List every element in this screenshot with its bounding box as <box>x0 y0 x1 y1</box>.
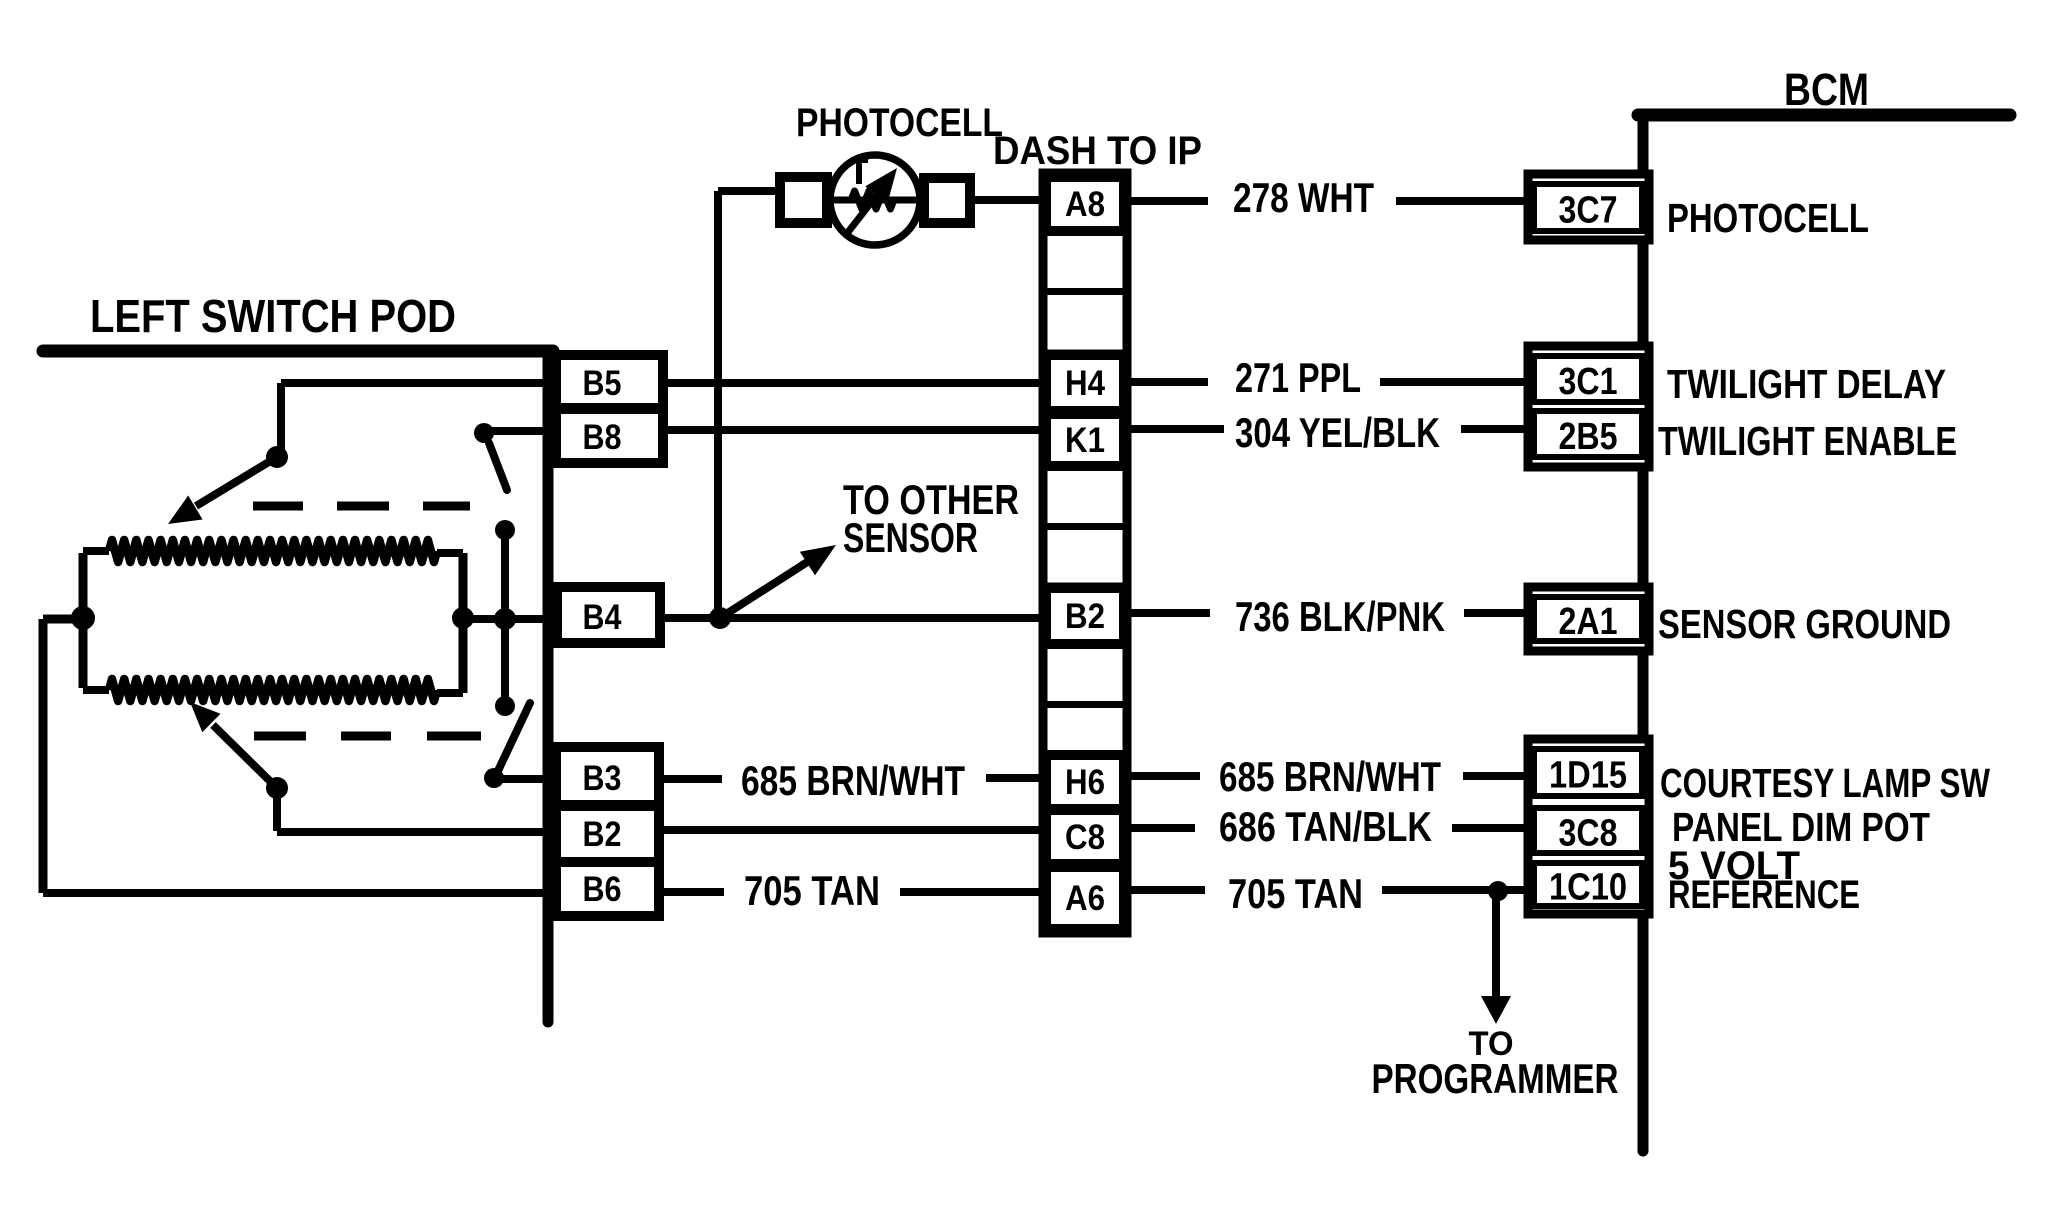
wire B8 horizontal <box>484 427 556 435</box>
node B2 wiper pivot <box>266 777 288 799</box>
wire B5 horizontal <box>281 379 556 387</box>
svg-text:1D15: 1D15 <box>1549 755 1627 797</box>
resistor R-top element <box>109 540 437 562</box>
left switch pod top boundary line <box>43 345 553 358</box>
connector pin B4 <box>557 587 660 643</box>
svg-text:COURTESY LAMP SW: COURTESY LAMP SW <box>1660 760 1990 806</box>
wire photocell left vertical <box>714 191 722 618</box>
wire right vertical between resistors <box>459 553 468 693</box>
resistor R-bottom lead left <box>83 686 109 694</box>
wire 705R to 1C10 <box>1382 886 1528 894</box>
svg-text:K1: K1 <box>1065 421 1105 460</box>
svg-text:3C7: 3C7 <box>1559 190 1618 232</box>
node left junction <box>71 606 95 630</box>
left switch pod connector line <box>543 351 554 1022</box>
node B5 wiper pivot <box>266 446 288 468</box>
wire photocell to A8 <box>970 196 1039 204</box>
resistor R-bottom lead right <box>437 689 463 697</box>
bcm pins 1D15 3C8 1C10 <box>1528 739 1649 914</box>
svg-text:B8: B8 <box>583 418 622 457</box>
node wiper line bottom <box>495 696 515 716</box>
connector pins B3 B2 B6 group <box>556 747 659 916</box>
svg-text:1C10: 1C10 <box>1549 867 1627 909</box>
wire B2 horizontal <box>277 828 556 836</box>
svg-text:C8: C8 <box>1065 818 1105 857</box>
svg-text:B2: B2 <box>1065 597 1105 636</box>
connector cell C8 <box>1048 812 1122 862</box>
wire B5 to H4 <box>663 379 1043 387</box>
photocell T marker <box>851 157 868 163</box>
svg-text:2A1: 2A1 <box>1559 601 1618 643</box>
wiper arrow lower lever <box>213 725 277 788</box>
svg-text:SENSOR: SENSOR <box>843 514 978 561</box>
svg-text:705 TAN: 705 TAN <box>1228 870 1363 917</box>
wire wiper vertical <box>501 530 509 706</box>
svg-text:2B5: 2B5 <box>1559 416 1618 458</box>
connector cell B2 <box>1048 590 1122 642</box>
svg-text:SENSOR GROUND: SENSOR GROUND <box>1658 601 1951 647</box>
connector cell K1 <box>1048 416 1122 464</box>
svg-text:B2: B2 <box>583 815 622 854</box>
wire 271 to 3C1 <box>1380 378 1528 386</box>
wiper arrow upper lever <box>196 457 277 506</box>
wire photocell left horizontal <box>718 187 775 195</box>
wire C8 to label 686 <box>1131 824 1195 832</box>
node switch S2 contact <box>484 768 504 788</box>
photocell arrow head <box>865 168 897 204</box>
svg-text:LEFT SWITCH POD: LEFT SWITCH POD <box>90 290 456 342</box>
bcm pin 2A1 <box>1528 587 1649 651</box>
bcm top boundary line <box>1638 109 2010 122</box>
svg-text:H6: H6 <box>1065 763 1105 802</box>
wire podB2 to C8 <box>662 826 1043 834</box>
wire far-left vertical <box>39 619 48 893</box>
wire 686 to 3C8 <box>1452 824 1528 832</box>
svg-text:BCM: BCM <box>1784 64 1869 115</box>
resistor R-top lead right <box>437 549 463 557</box>
wire A8 to label 278 <box>1131 197 1208 205</box>
wiper arrow upper head <box>168 496 203 525</box>
svg-text:DASH TO IP: DASH TO IP <box>993 129 1202 173</box>
bcm pins 3C1 2B5 <box>1528 346 1649 467</box>
connector cell H6 <box>1048 757 1122 807</box>
svg-text:685 BRN/WHT: 685 BRN/WHT <box>1219 753 1441 800</box>
wire B6 to label 705L <box>662 888 724 896</box>
to programmer arrow head <box>1481 996 1511 1024</box>
wire H4 to label 271 <box>1131 378 1208 386</box>
svg-text:278 WHT: 278 WHT <box>1233 174 1374 221</box>
node sensor branch junction <box>709 607 731 629</box>
wire stub to left node <box>43 615 83 624</box>
svg-text:685 BRN/WHT: 685 BRN/WHT <box>741 757 965 804</box>
wire 685R to 1D15 <box>1463 772 1528 780</box>
wire B2cell to label 736 <box>1131 609 1210 617</box>
svg-text:705 TAN: 705 TAN <box>744 867 880 914</box>
svg-text:H4: H4 <box>1065 364 1105 403</box>
svg-text:3C1: 3C1 <box>1559 361 1618 403</box>
mechanical link dashes row2 <box>254 732 306 741</box>
photocell inner resistor element <box>851 191 894 209</box>
wire B4 to B2cell <box>660 614 1043 622</box>
resistor R-top lead left <box>83 547 109 555</box>
to programmer arrow line <box>1492 891 1500 1000</box>
svg-text:736 BLK/PNK: 736 BLK/PNK <box>1235 593 1445 640</box>
svg-text:A6: A6 <box>1065 879 1105 918</box>
connector cell A6 <box>1048 869 1122 927</box>
svg-text:686 TAN/BLK: 686 TAN/BLK <box>1219 803 1432 850</box>
wire K1 to label 304 <box>1131 425 1224 433</box>
photocell body circle <box>830 155 920 245</box>
node switch S1 pivot <box>474 423 494 443</box>
bcm pin 3C7 <box>1528 174 1649 240</box>
resistor R-bottom element <box>109 679 437 701</box>
photocell arrow slash <box>845 186 884 236</box>
svg-text:B6: B6 <box>583 870 622 909</box>
node programmer branch junction <box>1488 881 1508 901</box>
switch S1 lever <box>489 443 507 490</box>
svg-text:TWILIGHT DELAY: TWILIGHT DELAY <box>1667 361 1946 407</box>
svg-text:A8: A8 <box>1065 185 1105 224</box>
svg-text:REFERENCE: REFERENCE <box>1668 873 1860 917</box>
node right junction <box>452 607 474 629</box>
wire node-right to wiper line <box>463 615 557 623</box>
svg-text:TWILIGHT ENABLE: TWILIGHT ENABLE <box>1658 418 1957 464</box>
photocell wire through <box>827 197 924 204</box>
svg-text:304 YEL/BLK: 304 YEL/BLK <box>1235 409 1440 456</box>
wire 304 to 2B5 <box>1461 425 1528 433</box>
wire B5 vertical drop <box>277 383 285 457</box>
wire H6 to label 685R <box>1131 772 1200 780</box>
to other sensor arrow head <box>800 545 836 575</box>
bcm connector line <box>1638 115 1649 1151</box>
wire A6 to label 705R <box>1131 886 1205 894</box>
node wiper line top <box>495 520 515 540</box>
connector pins B5 B8 group <box>556 355 663 463</box>
svg-text:B4: B4 <box>583 598 622 637</box>
node wiper top-cross junction <box>494 608 516 630</box>
wire B6 horizontal <box>43 889 556 897</box>
mechanical link dashes row1 <box>253 502 303 511</box>
photocell terminal left <box>780 177 827 223</box>
wire 736 to 2A1 <box>1464 609 1528 617</box>
svg-text:3C8: 3C8 <box>1559 813 1618 855</box>
connector cell H4 <box>1048 357 1122 409</box>
svg-text:PROGRAMMER: PROGRAMMER <box>1372 1055 1619 1102</box>
switch S2 lever <box>497 703 530 773</box>
svg-text:271 PPL: 271 PPL <box>1235 354 1361 401</box>
photocell terminal right <box>924 178 970 223</box>
connector cell A8 <box>1048 179 1122 229</box>
wire B3 from contact <box>494 775 556 783</box>
wire 278 to 3C7 <box>1396 197 1528 205</box>
svg-text:PHOTOCELL: PHOTOCELL <box>796 101 1003 145</box>
wire label685L to H6 <box>986 774 1039 782</box>
connector column dash-to-ip <box>1043 173 1127 933</box>
wire B3 to label 685L <box>662 775 722 783</box>
wire B2 vertical drop <box>273 788 281 831</box>
svg-text:B5: B5 <box>583 364 622 403</box>
wiper arrow lower head <box>190 702 221 732</box>
wire B8 to K1 <box>663 426 1043 434</box>
to other sensor arrow line <box>720 559 812 618</box>
svg-text:B3: B3 <box>583 759 622 798</box>
svg-text:PHOTOCELL: PHOTOCELL <box>1667 195 1869 241</box>
wire left vertical between resistors <box>79 553 88 688</box>
wire label705L to A6 <box>900 888 1039 896</box>
